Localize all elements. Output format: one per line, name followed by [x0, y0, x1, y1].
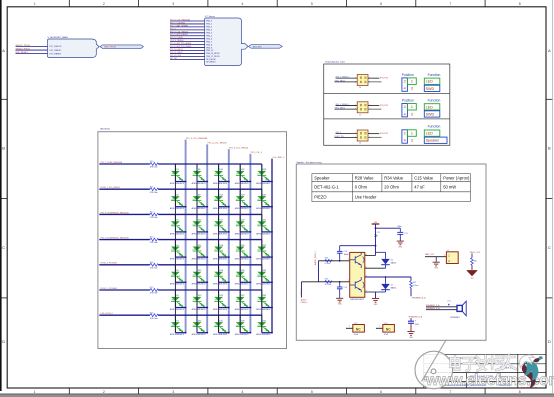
LED D33 cathode wire to column bus	[262, 281, 272, 283]
LED D14	[192, 320, 207, 336]
svg-text:4: 4	[369, 109, 370, 111]
frame row tick 2 left	[0, 198, 7, 200]
capacitor C14 stem bottom	[339, 253, 341, 261]
svg-text:1: 1	[348, 259, 349, 261]
wire to sheet2 pin PB0_10	[170, 50, 205, 52]
svg-text:R28: R28	[325, 258, 328, 260]
LED D5 anode stub	[174, 265, 176, 283]
svg-text:20 Ohm: 20 Ohm	[384, 185, 399, 190]
svg-text:APHD1608LSECK: APHD1608LSECK	[170, 333, 185, 336]
svg-text:D8: D8	[198, 169, 200, 171]
LED D27 anode stub	[239, 290, 241, 308]
svg-text:NC: NC	[356, 328, 361, 332]
LED D8 anode stub	[196, 164, 198, 182]
watermark circle logo	[415, 340, 453, 389]
jumper row 1: position box 2/4 (blue)	[402, 78, 408, 91]
resistor R26 on row 7	[150, 314, 159, 317]
LED D15	[213, 169, 228, 185]
svg-text:PIO_5_BTN_RESET: PIO_5_BTN_RESET	[170, 34, 189, 36]
svg-text:LED2: LED2	[193, 325, 197, 327]
LED D11	[192, 245, 207, 261]
LED D12	[192, 270, 207, 286]
svg-text:R28 Value: R28 Value	[355, 176, 375, 181]
LED D23 cathode wire to column bus	[240, 206, 250, 208]
svg-text:SWD: SWD	[426, 87, 435, 91]
svg-text:D25: D25	[241, 245, 244, 247]
sheet symbol U_MICROBIT_MAIN body	[48, 39, 100, 58]
jumper row 2: wire left upper	[336, 104, 358, 106]
LED D31 cathode wire to column bus	[262, 231, 272, 233]
jumper row 2: header J5 body	[357, 102, 368, 113]
svg-text:0 Ohm: 0 Ohm	[413, 285, 419, 287]
speaker section box	[296, 164, 486, 340]
svg-text:PIO_3_COL_RED0608: PIO_3_COL_RED0608	[186, 138, 208, 140]
LED D23	[235, 194, 250, 210]
svg-text:LED2: LED2	[258, 300, 262, 302]
svg-text:2: 2	[355, 81, 356, 83]
jumper row 1: position box 1 (green)	[407, 78, 416, 85]
jumper row 2: pin pad	[365, 104, 367, 106]
junction at column bus 2 row 1	[206, 181, 208, 183]
svg-text:6: 6	[380, 2, 382, 6]
svg-text:APHD1608LSECK: APHD1608LSECK	[256, 182, 271, 185]
diode D4	[381, 259, 390, 265]
svg-text:D35: D35	[263, 320, 266, 322]
svg-text:SW1_MID/L: SW1_MID/L	[335, 108, 347, 110]
svg-text:1: 1	[411, 80, 413, 84]
svg-text:4: 4	[404, 87, 406, 91]
jumper row 2: pin pad	[360, 104, 362, 106]
svg-text:D3: D3	[176, 220, 178, 222]
wire to sheet2 pin PB0_1	[170, 23, 205, 25]
LED D12 anode stub	[196, 265, 198, 283]
svg-text:470 Ohm: 470 Ohm	[150, 167, 158, 169]
svg-text:D20: D20	[220, 295, 223, 297]
LED D24	[235, 220, 250, 236]
svg-text:AUDIO: AUDIO	[301, 299, 307, 302]
svg-text:PIO_6_COL06: PIO_6_COL06	[170, 37, 183, 39]
LED D35	[256, 320, 271, 336]
junction at column bus 5 row 2	[271, 206, 273, 208]
svg-text:APHD1608LSECK: APHD1608LSECK	[235, 182, 250, 185]
svg-text:www.elecfans.com: www.elecfans.com	[521, 387, 537, 389]
frame row tick 3 right	[546, 297, 552, 299]
LED D31	[256, 220, 271, 236]
LED D17	[213, 220, 228, 236]
LED D3 cathode wire to column bus	[175, 231, 185, 233]
svg-text:C15 Value: C15 Value	[414, 176, 434, 181]
junction at column bus 1 row 5	[185, 281, 187, 283]
transistor Q3B	[350, 277, 364, 292]
svg-text:APHD1608LSECK: APHD1608LSECK	[213, 207, 228, 210]
LED D29 anode stub	[261, 164, 263, 182]
svg-text:R21: R21	[150, 186, 153, 188]
svg-text:4: 4	[369, 81, 370, 83]
svg-text:1: 1	[355, 105, 356, 107]
resistor R36	[471, 258, 474, 266]
amp top power rail	[340, 245, 376, 247]
svg-text:LED2: LED2	[171, 249, 175, 251]
LED D8 cathode wire to column bus	[197, 181, 207, 183]
LED D13 cathode wire to column bus	[197, 307, 207, 309]
LED D32 anode stub	[261, 240, 263, 258]
svg-text:LED2: LED2	[214, 300, 218, 302]
LED D17 cathode wire to column bus	[219, 231, 229, 233]
svg-text:LED2: LED2	[214, 325, 218, 327]
jumper row 2: pin pad	[365, 108, 367, 110]
svg-text:D9: D9	[198, 194, 200, 196]
wire header gnd stub	[435, 257, 437, 262]
LED D19 cathode wire to column bus	[219, 281, 229, 283]
LED D33	[256, 270, 271, 286]
junction at column bus 5 row 6	[271, 307, 273, 309]
LED D7 anode stub	[174, 315, 176, 333]
svg-text:D4: D4	[391, 259, 393, 261]
wire to sheet2 pin PB0_9	[170, 47, 205, 49]
svg-text:R34: R34	[325, 279, 328, 281]
svg-text:APHD1608LSECK: APHD1608LSECK	[235, 283, 250, 286]
svg-text:470 Ohm: 470 Ohm	[150, 217, 158, 219]
capacitor C17	[408, 320, 414, 322]
svg-text:1: 1	[349, 326, 350, 328]
svg-text:C16: C16	[344, 287, 347, 289]
LED D20	[213, 295, 228, 311]
svg-text:1: 1	[379, 326, 380, 328]
svg-text:PIO_4_COL_RED06: PIO_4_COL_RED06	[170, 31, 188, 33]
LED D5 cathode wire to column bus	[175, 281, 185, 283]
svg-text:PB0_16_BVCD: PB0_16_BVCD	[206, 53, 220, 55]
matrix column wire 1	[174, 164, 176, 333]
bottom outer border line	[0, 393, 554, 395]
svg-text:LED2: LED2	[193, 199, 197, 201]
LED D14 anode stub	[196, 315, 198, 333]
svg-text:1: 1	[355, 133, 356, 135]
svg-text:1: 1	[444, 255, 445, 257]
svg-text:7: 7	[449, 390, 451, 394]
svg-text:D32: D32	[263, 245, 266, 247]
wire to sheet2 pin PB0_3	[170, 29, 205, 31]
jumper row 3: function box LED (green)	[424, 130, 440, 136]
svg-text:D: D	[548, 339, 551, 344]
LED D16	[213, 194, 228, 210]
junction at column bus 1 row 3	[185, 231, 187, 233]
LED D6	[170, 295, 185, 311]
svg-text:3: 3	[411, 112, 413, 116]
frame column tick 2 top	[138, 0, 140, 7]
svg-text:PB0_0: PB0_0	[206, 21, 212, 23]
svg-text:PIO_0_COL_RED0606: PIO_0_COL_RED0606	[170, 19, 190, 21]
capacitor C16	[337, 286, 343, 288]
svg-text:PIO_3: PIO_3	[170, 28, 176, 30]
LED D20 anode stub	[218, 290, 220, 308]
jumper row 3: position box 2/4 (blue)	[402, 130, 408, 143]
svg-text:D16: D16	[220, 194, 223, 196]
svg-text:LED2: LED2	[236, 174, 240, 176]
jumper row 1: function box SWD (blue)	[424, 85, 440, 91]
svg-text:0 Ohm: 0 Ohm	[355, 185, 368, 190]
right outer border line	[551, 0, 553, 394]
capacitor C14 stem top	[339, 246, 341, 252]
LED D26	[235, 270, 250, 286]
svg-text:TGT_SWCLK: TGT_SWCLK	[49, 46, 62, 48]
junction at column bus 2 row 4	[206, 256, 208, 258]
svg-text:EXT_PIO: EXT_PIO	[253, 46, 262, 48]
wire to D4 top	[376, 251, 386, 253]
watermark chinese characters	[451, 355, 516, 371]
svg-text:APHD1608LSECK: APHD1608LSECK	[213, 333, 228, 336]
frame column tick 3 top	[207, 0, 209, 7]
LED D29	[256, 169, 271, 185]
svg-text:LED2: LED2	[236, 199, 240, 201]
resistor R22 on row 3	[150, 213, 159, 216]
svg-text:PIO_1_COL0606: PIO_1_COL0606	[170, 22, 185, 24]
jumper row 3: wire left upper	[336, 133, 358, 135]
LED D18	[213, 245, 228, 261]
LED D25 anode stub	[239, 240, 241, 258]
junction at column bus 3 row 1	[228, 181, 230, 183]
LED D26 anode stub	[239, 265, 241, 283]
matrix row 7 wire	[99, 314, 150, 316]
svg-text:D34: D34	[263, 295, 266, 297]
jumper row 1: pin pad	[365, 77, 367, 79]
svg-text:7: 7	[449, 2, 451, 6]
junction at column bus 2 row 3	[206, 231, 208, 233]
LED D15 anode stub	[218, 164, 220, 182]
svg-text:PIO_10_NFC1: PIO_10_NFC1	[170, 49, 183, 51]
svg-text:8: 8	[519, 390, 521, 394]
wire C17 bottom	[410, 323, 412, 331]
svg-text:AUDIO_P: AUDIO_P	[300, 288, 303, 296]
port EXT_PIO	[249, 45, 283, 49]
svg-text:D2: D2	[176, 194, 178, 196]
LED D35 cathode wire to column bus	[262, 332, 272, 334]
svg-text:D12: D12	[198, 270, 201, 272]
LED D28 cathode wire to column bus	[240, 332, 250, 334]
svg-text:COL_3_RED06: COL_3_RED06	[170, 40, 183, 42]
svg-text:8: 8	[519, 2, 521, 6]
ground under header wire	[433, 262, 440, 266]
resistor R21 on row 2	[150, 188, 159, 191]
junction at column bus 5 row 5	[271, 281, 273, 283]
svg-text:LED2: LED2	[214, 274, 218, 276]
LED D33 anode stub	[261, 265, 263, 283]
svg-text:PB0_10: PB0_10	[206, 50, 213, 52]
svg-text:4: 4	[242, 390, 244, 394]
svg-text:APHD1608LSECK: APHD1608LSECK	[256, 258, 271, 261]
LED D9	[192, 194, 207, 210]
svg-text:D21: D21	[220, 320, 223, 322]
wire to sheet2 pin SPI_MOSI	[170, 58, 205, 60]
elecfans bird logo	[520, 355, 543, 389]
jumper panel divider 2	[324, 118, 450, 120]
svg-text:D24: D24	[241, 220, 244, 222]
svg-text:50 mW: 50 mW	[443, 185, 456, 190]
LED D20 cathode wire to column bus	[219, 307, 229, 309]
jumper row 2: pin pad	[360, 108, 362, 110]
LED D26 cathode wire to column bus	[240, 281, 250, 283]
junction top rail	[375, 245, 377, 247]
ground under Q3	[372, 299, 379, 303]
svg-text:PIO_COL_4: PIO_COL_4	[251, 152, 263, 154]
junction at column bus 1 row 7	[185, 332, 187, 334]
LED D34	[256, 295, 271, 311]
matrix column bus bar 3	[228, 149, 230, 333]
wire to sheet2 pin PB0_5	[170, 35, 205, 37]
svg-text:3: 3	[369, 105, 370, 107]
junction at column bus 1 row 4	[185, 256, 187, 258]
transistor pack Q3 body	[350, 252, 365, 297]
junction at column bus 4 row 1	[250, 181, 252, 183]
frame row tick 3 left	[0, 297, 7, 299]
svg-text:LED2: LED2	[193, 249, 197, 251]
svg-text:R25: R25	[150, 287, 153, 289]
svg-text:PB0_1: PB0_1	[206, 24, 212, 26]
svg-text:BAT54: BAT54	[391, 262, 396, 265]
LED D4 anode stub	[174, 240, 176, 258]
svg-text:LED2: LED2	[193, 274, 197, 276]
LED D18 cathode wire to column bus	[219, 256, 229, 258]
svg-text:LED: LED	[426, 80, 434, 84]
jumper row 2: function box SWD (blue)	[424, 111, 440, 117]
wire to sheet1 pin TGT_SWCLK	[16, 46, 48, 48]
jumper row 1: wire right upper	[368, 77, 379, 79]
svg-text:C: C	[548, 245, 551, 250]
svg-text:PB0_9: PB0_9	[206, 47, 212, 49]
junction at column bus 5 row 7	[271, 332, 273, 334]
svg-text:APHD1608LSECK: APHD1608LSECK	[170, 182, 185, 185]
jumper row 1: pin pad	[360, 77, 362, 79]
svg-text:SPEAKER_N_A: SPEAKER_N_A	[412, 296, 426, 299]
LED D22	[235, 169, 250, 185]
matrix column wire 4	[239, 164, 241, 333]
svg-text:SWDIO_PROG: SWDIO_PROG	[16, 48, 31, 50]
svg-text:3: 3	[411, 87, 413, 91]
LED D22 cathode wire to column bus	[240, 181, 250, 183]
svg-text:LED: LED	[426, 105, 434, 109]
svg-text:1: 1	[34, 2, 36, 6]
svg-text:3: 3	[369, 78, 370, 80]
jumper row 1: wire right lower	[368, 81, 382, 83]
LED D32	[256, 245, 271, 261]
LED D2 anode stub	[174, 189, 176, 207]
svg-text:D13: D13	[198, 295, 201, 297]
frame row tick 2 right	[546, 198, 552, 200]
diode D5	[381, 284, 390, 290]
junction at column bus 3 row 4	[228, 256, 230, 258]
jumper row 2: function box LED (green)	[424, 104, 440, 110]
svg-text:LED2: LED2	[236, 300, 240, 302]
svg-text:R24: R24	[150, 262, 153, 264]
svg-text:LED2: LED2	[171, 325, 175, 327]
matrix row 2 wire	[99, 188, 150, 190]
ground under C16	[336, 298, 343, 302]
svg-text:APHD1608LSECK: APHD1608LSECK	[192, 207, 207, 210]
svg-text:2: 2	[404, 132, 406, 136]
svg-text:D7: D7	[176, 320, 178, 322]
svg-text:100nF: 100nF	[344, 254, 350, 256]
LED D10	[192, 220, 207, 236]
svg-text:APHD1608LSECK: APHD1608LSECK	[256, 308, 271, 311]
svg-text:SWD: SWD	[426, 112, 435, 116]
junction at column bus 4 row 6	[250, 307, 252, 309]
LED D30 anode stub	[261, 189, 263, 207]
LED D24 anode stub	[239, 214, 241, 232]
ground under C15	[397, 241, 404, 245]
svg-text:2: 2	[404, 80, 406, 84]
LED D14 cathode wire to column bus	[197, 332, 207, 334]
LED D1 anode stub	[174, 164, 176, 182]
svg-text:LED2: LED2	[171, 274, 175, 276]
wire to C15	[376, 227, 401, 229]
svg-text:APHD1608LSECK: APHD1608LSECK	[213, 182, 228, 185]
LED D9 cathode wire to column bus	[197, 206, 207, 208]
frame column tick 4 top	[276, 0, 278, 7]
svg-text:PB0_4: PB0_4	[206, 33, 213, 35]
svg-text:D22: D22	[241, 169, 244, 171]
svg-text:LED2: LED2	[258, 249, 262, 251]
jumper row 1: function box LED (green)	[424, 78, 440, 84]
svg-text:PIEZO: PIEZO	[314, 195, 326, 200]
matrix column bus bar 2	[206, 144, 208, 332]
LED D16 cathode wire to column bus	[219, 206, 229, 208]
resistor R20 on row 1	[150, 163, 159, 166]
svg-text:3V3: 3V3	[471, 278, 474, 280]
LED D28 anode stub	[239, 315, 241, 333]
svg-text:LED2: LED2	[236, 325, 240, 327]
svg-text:SW_2: SW_2	[336, 132, 342, 134]
NC component C13 wire stub	[376, 327, 383, 329]
LED D5	[170, 270, 185, 286]
LED D3 anode stub	[174, 214, 176, 232]
svg-text:D5: D5	[176, 270, 178, 272]
svg-text:LED2: LED2	[258, 224, 262, 226]
junction at column bus 1 row 2	[185, 206, 187, 208]
LED D21 cathode wire to column bus	[219, 332, 229, 334]
svg-text:D5: D5	[391, 284, 393, 286]
svg-text:3: 3	[172, 390, 174, 394]
junction at column bus 2 row 7	[206, 332, 208, 334]
svg-text:0 Ohm: 0 Ohm	[325, 263, 331, 265]
svg-text:PIEZO_OUT: PIEZO_OUT	[470, 252, 482, 254]
LED D34 anode stub	[261, 290, 263, 308]
svg-text:PWM_0: PWM_0	[301, 302, 307, 304]
svg-text:470 Ohm: 470 Ohm	[150, 293, 158, 295]
resistor R23 on row 4	[150, 238, 159, 241]
LED D16 anode stub	[218, 189, 220, 207]
svg-text:LED2: LED2	[214, 224, 218, 226]
svg-text:COL_RED_5: COL_RED_5	[272, 157, 285, 159]
left drop wire	[301, 282, 303, 298]
svg-text:PB0_3: PB0_3	[206, 30, 212, 32]
speaker wire P	[426, 306, 457, 308]
wire below R35	[410, 288, 412, 296]
frame column tick 6 top	[415, 0, 417, 7]
svg-text:PB0_7: PB0_7	[206, 41, 212, 43]
svg-text:C: C	[2, 245, 5, 250]
svg-text:Position: Position	[402, 73, 414, 77]
svg-text:PU-PU2: PU-PU2	[380, 105, 389, 107]
svg-text:PIO_16_SCL: PIO_16_SCL	[170, 55, 182, 57]
frame column tick 5 bottom	[346, 388, 348, 394]
svg-text:SW1_MID/L: SW1_MID/L	[335, 80, 347, 82]
svg-text:APHD1608LSECK: APHD1608LSECK	[192, 182, 207, 185]
svg-text:TGT_RESET: TGT_RESET	[49, 53, 62, 55]
matrix column bus bar 4	[249, 154, 251, 333]
LED D6 cathode wire to column bus	[175, 307, 185, 309]
svg-text:LED2: LED2	[258, 274, 262, 276]
svg-text:SWCLK_PROG: SWCLK_PROG	[16, 45, 31, 47]
LED D12 cathode wire to column bus	[197, 281, 207, 283]
